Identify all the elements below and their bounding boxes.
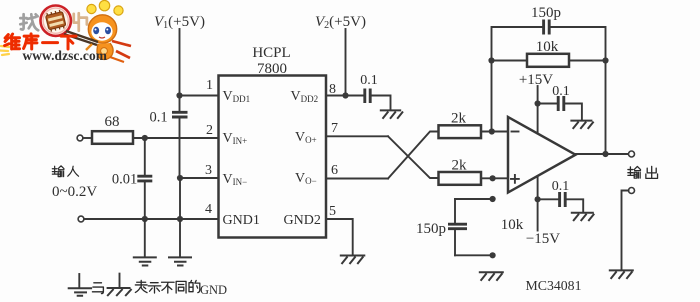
label input range 0~0.2V xyxy=(52,184,97,200)
wire output xyxy=(576,153,629,155)
label +15V xyxy=(519,72,553,88)
wire 150p top xyxy=(455,198,493,200)
ground chassis output xyxy=(609,270,634,279)
terminal input bottom xyxy=(78,216,84,222)
svg-text:1: 1 xyxy=(206,78,213,93)
label 0.1 C1 xyxy=(149,110,167,126)
ground legend earth symbol xyxy=(68,274,92,296)
op-amp U1 HCPL-7800 body xyxy=(219,76,327,238)
pin 7 xyxy=(331,121,338,136)
wire pin5 xyxy=(326,219,353,255)
label V1(+5V) xyxy=(154,14,205,31)
node noninverting junction xyxy=(490,175,496,181)
pin 6 xyxy=(331,163,338,178)
wire GND1 vertical xyxy=(179,178,181,219)
ground chassis pin5 xyxy=(340,256,366,265)
svg-text:+15V: +15V xyxy=(519,72,553,88)
svg-text:GND2: GND2 xyxy=(284,213,321,228)
svg-text:150p: 150p xyxy=(416,221,446,237)
wire output vertical xyxy=(605,61,607,155)
label 0.1 V2 xyxy=(360,73,378,88)
capacitor C3 0.1 xyxy=(365,89,391,111)
svg-text:150p: 150p xyxy=(531,5,561,21)
node 0.01 junction xyxy=(142,135,148,141)
wire feedback mid left xyxy=(492,60,528,62)
pin 8 xyxy=(329,82,336,97)
wire output return xyxy=(622,191,629,271)
ground chassis plus15 xyxy=(570,121,593,129)
svg-text:0.1: 0.1 xyxy=(149,110,167,126)
svg-text:2: 2 xyxy=(206,123,213,138)
ground GND1 earth 2 xyxy=(168,219,192,266)
label 0.1 minus15 xyxy=(552,179,570,194)
ground GND1 earth 1 xyxy=(133,219,157,266)
label MC34081 xyxy=(526,278,582,293)
ground chassis input xyxy=(479,272,504,280)
node inverting junction xyxy=(489,128,495,134)
label GND2 xyxy=(284,213,321,228)
svg-text:VDD2: VDD2 xyxy=(291,89,319,104)
svg-text:VIN+: VIN+ xyxy=(223,131,248,146)
watermark logo zhao chip pian xyxy=(20,14,38,30)
ground chassis minus15 xyxy=(571,213,594,221)
svg-text:0.1: 0.1 xyxy=(360,73,378,88)
label 150p top xyxy=(531,5,561,21)
wire V2 supply vertical xyxy=(345,29,347,96)
wire noninverting input xyxy=(481,177,508,179)
node V2 junction xyxy=(342,92,348,98)
wire V1 supply vertical xyxy=(179,29,181,96)
label output shuchu xyxy=(628,166,658,178)
node pin3 junction xyxy=(177,175,183,181)
svg-text:V1(+5V): V1(+5V) xyxy=(154,14,205,31)
watermark chip badge xyxy=(41,6,71,36)
ground legend chassis symbol xyxy=(107,274,132,296)
ground chassis V2 xyxy=(380,110,403,118)
pin 5 xyxy=(329,204,336,219)
label 0.01 C2 xyxy=(112,172,137,188)
wire feedback mid right xyxy=(569,60,606,62)
label 10k feedback xyxy=(536,39,559,55)
wire pin2 xyxy=(133,137,219,139)
watermark text weikuyixia xyxy=(5,34,76,49)
wire pin7 xyxy=(326,135,388,137)
pin 4 xyxy=(205,202,212,217)
label minus xyxy=(512,131,519,133)
svg-text:10k: 10k xyxy=(536,39,559,55)
svg-text:GND1: GND1 xyxy=(223,213,260,228)
capacitor C1 0.1 xyxy=(172,96,188,178)
capacitor C2 0.01 xyxy=(137,138,152,219)
wire pin3 xyxy=(180,177,219,179)
label GND1 xyxy=(223,213,260,228)
node output junction xyxy=(602,151,608,157)
label VO- xyxy=(295,171,317,186)
node feedback left xyxy=(488,57,494,63)
wire -15V supply xyxy=(537,176,539,231)
svg-text:10k: 10k xyxy=(501,217,524,233)
svg-text:2k: 2k xyxy=(452,158,468,174)
wire crossover pin6 to upper xyxy=(388,132,439,179)
svg-text:0~0.2V: 0~0.2V xyxy=(52,184,97,200)
svg-text:2k: 2k xyxy=(451,111,467,127)
node feedback right xyxy=(602,57,608,63)
node GND1 junction b xyxy=(177,216,183,222)
svg-text:−15V: −15V xyxy=(526,231,560,247)
resistor R4 10k xyxy=(527,54,569,67)
node 150p top tap xyxy=(490,196,496,202)
svg-text:0.01: 0.01 xyxy=(112,172,137,188)
svg-text:0.1: 0.1 xyxy=(552,179,570,194)
wire pin4 xyxy=(84,218,219,220)
svg-text:www.dzsc.com: www.dzsc.com xyxy=(23,48,108,63)
wire pin8 xyxy=(326,95,364,97)
node -15V junction xyxy=(535,196,541,202)
resistor R2 2k upper xyxy=(439,125,482,138)
wire pin6 xyxy=(326,178,388,180)
wire pin1 xyxy=(180,95,219,97)
capacitor C7 150p input xyxy=(448,199,467,255)
label legend GND xyxy=(200,283,227,297)
label plus xyxy=(511,175,519,183)
svg-text:MC34081: MC34081 xyxy=(526,278,582,293)
node +15V junction xyxy=(535,100,541,106)
label 2k upper xyxy=(451,111,467,127)
terminal output return xyxy=(629,188,635,194)
label 150p input xyxy=(416,221,446,237)
wire crossover pin7 to lower xyxy=(388,136,439,178)
label 2k lower xyxy=(452,158,468,174)
label input shuru xyxy=(52,166,78,177)
svg-text:6: 6 xyxy=(331,163,338,178)
svg-text:VIN−: VIN− xyxy=(223,172,248,187)
label VDD1 xyxy=(223,89,251,104)
watermark mascot xyxy=(64,0,131,62)
wire +15V supply xyxy=(537,86,539,134)
svg-text:VO+: VO+ xyxy=(295,130,317,145)
capacitor C4 150p xyxy=(544,20,550,35)
svg-text:0.1: 0.1 xyxy=(552,84,570,99)
label HCPL xyxy=(252,45,290,61)
pin 1 xyxy=(206,78,213,93)
svg-text:68: 68 xyxy=(105,114,120,130)
terminal output xyxy=(629,151,635,157)
svg-text:4: 4 xyxy=(205,202,212,217)
label VDD2 xyxy=(291,89,319,104)
label 0.1 plus15 xyxy=(552,84,570,99)
svg-text:7800: 7800 xyxy=(257,61,287,77)
svg-text:5: 5 xyxy=(329,204,336,219)
svg-text:VO−: VO− xyxy=(295,171,317,186)
wire feedback top row xyxy=(492,27,544,132)
pin 3 xyxy=(205,163,212,178)
op-amp U2 triangle xyxy=(508,117,576,193)
resistor R3 2k lower xyxy=(439,172,482,185)
label VIN- xyxy=(223,172,248,187)
node VDD1 junction xyxy=(176,92,182,98)
watermark url www.dzsc.com xyxy=(23,48,108,63)
capacitor C6 0.1 minus15 xyxy=(538,192,584,212)
svg-text:GND: GND xyxy=(200,283,227,297)
label 7800 xyxy=(257,61,287,77)
resistor R1 68 xyxy=(92,131,133,144)
label legend yu xyxy=(92,283,103,294)
label V2(+5V) xyxy=(315,14,366,31)
label 10k input xyxy=(501,217,524,233)
label VO+ xyxy=(295,130,317,145)
wire feedback top right xyxy=(549,27,605,61)
wire input top xyxy=(83,137,92,139)
svg-text:3: 3 xyxy=(205,163,212,178)
wire inverting input xyxy=(481,131,508,133)
label VIN+ xyxy=(223,131,248,146)
watermark yellow glow xyxy=(0,46,9,55)
pin 2 xyxy=(206,123,213,138)
capacitor C5 0.1 plus15 xyxy=(538,96,582,120)
svg-text:7: 7 xyxy=(331,121,338,136)
label 68 xyxy=(105,114,120,130)
node bottom wire junction a xyxy=(142,216,148,222)
svg-text:V2(+5V): V2(+5V) xyxy=(315,14,366,31)
node 150p bottom tap xyxy=(490,252,496,258)
svg-text:HCPL: HCPL xyxy=(252,45,290,61)
label -15V xyxy=(526,231,560,247)
terminal input top xyxy=(77,135,83,141)
svg-text:VDD1: VDD1 xyxy=(223,89,251,104)
label legend text biaoshi butong de GND xyxy=(135,280,199,293)
wire 150p bottom xyxy=(455,254,493,256)
